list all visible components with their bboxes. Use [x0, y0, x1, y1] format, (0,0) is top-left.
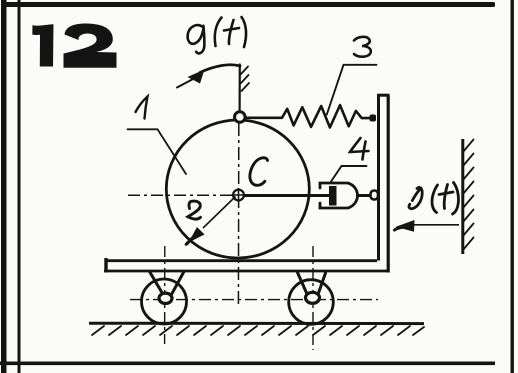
spring anchor dot on bracket — [370, 115, 377, 122]
disk horizontal centerline — [128, 194, 236, 196]
s(t) arrow — [395, 220, 460, 232]
left wheel centerlines — [164, 246, 166, 344]
s(t) label — [409, 183, 458, 215]
center mark C — [233, 190, 244, 201]
left wheel — [142, 279, 187, 324]
damper 4 rod to bracket — [356, 194, 370, 197]
wheels horizontal centerline — [130, 299, 378, 301]
pivot pin on disk top — [235, 112, 246, 123]
frame bottom line — [0, 362, 495, 366]
damper 4 cylinder — [320, 183, 358, 208]
label 1 — [136, 97, 148, 119]
disk vertical centerline — [237, 123, 239, 308]
frame left inner line — [18, 0, 21, 373]
bracket vertical bar — [377, 95, 390, 273]
ground hatching — [92, 326, 424, 335]
right wheel centerline — [312, 246, 314, 350]
disk 1 — [166, 120, 309, 258]
cart platform bottom line — [104, 270, 389, 273]
damper 4 piston plate — [329, 186, 337, 206]
q rotation arrow arc — [177, 65, 240, 88]
leader line for 1 — [128, 129, 187, 174]
leader line for 4 — [330, 166, 367, 183]
figure number 12 — [32, 23, 116, 67]
radius arrow from C — [186, 197, 235, 245]
cart platform left cap — [104, 258, 107, 273]
right wheel — [289, 280, 334, 325]
wall (kinematic excitation support) — [461, 139, 464, 254]
wall hatching — [463, 140, 474, 251]
leader line for 3 — [327, 65, 377, 115]
label 2 — [188, 201, 201, 219]
left wheel hub — [159, 293, 172, 303]
frame left outer bar — [1, 0, 7, 373]
label C — [250, 158, 268, 186]
label 4 — [350, 138, 369, 160]
right wheel hub — [306, 292, 320, 303]
spring 3 — [246, 105, 373, 127]
cart platform top line — [105, 259, 377, 262]
frame right line — [511, 0, 514, 373]
ground line — [89, 322, 424, 325]
right caster fork — [298, 273, 326, 295]
left caster fork — [150, 272, 185, 294]
damper 4 piston rod — [244, 194, 330, 197]
fixed reference line above pin — [240, 65, 249, 113]
frame top line — [5, 2, 495, 7]
q(t) label — [188, 17, 246, 53]
label 3 — [354, 37, 371, 57]
damper pin at bracket — [371, 191, 379, 200]
